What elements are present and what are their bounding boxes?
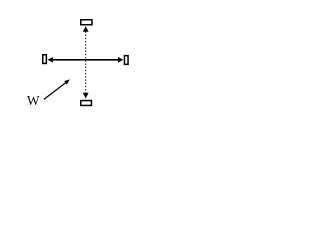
left arrowhead (48, 57, 53, 63)
diagonal pointer wire (44, 83, 66, 100)
diagonal pointer arrowhead (64, 79, 70, 84)
down arrowhead (83, 93, 89, 99)
right arrowhead (118, 57, 123, 63)
svg-text:W: W (27, 93, 40, 108)
top box (81, 20, 92, 25)
up arrowhead (83, 26, 89, 32)
horizontal wire (53, 59, 119, 61)
left box (43, 55, 47, 64)
right box (124, 56, 128, 65)
bottom box (81, 101, 92, 106)
vertical dotted wire (85, 32, 87, 93)
